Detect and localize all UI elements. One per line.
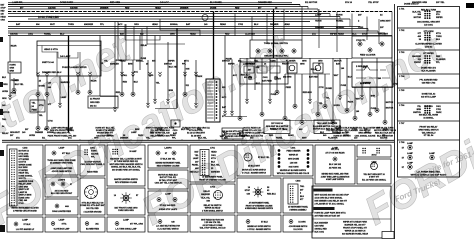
svg-text:4 CYCLE - WASHER SWITCH: 4 CYCLE - WASHER SWITCH [247, 228, 271, 231]
legend radio connector [80, 145, 105, 176]
mid label rows [104, 60, 342, 66]
svg-text:BLU: BLU [254, 24, 259, 26]
wire [231, 60, 238, 116]
svg-text:TAIL STOP SIGNAL 904 140: TAIL STOP SIGNAL 904 140 [199, 227, 226, 230]
svg-text:TURN SIGNAL SWITCH: TURN SIGNAL SWITCH [264, 42, 289, 45]
svg-text:DIMMER: DIMMER [120, 137, 129, 139]
wire [9, 73, 19, 100]
svg-text:GLOVE BOX LAMP: GLOVE BOX LAMP [54, 228, 71, 231]
svg-text:PARK: PARK [348, 101, 354, 104]
svg-text:HEAD: HEAD [152, 23, 158, 26]
wire [361, 58, 372, 100]
svg-text:C601: C601 [28, 33, 34, 35]
corner chip [466, 3, 474, 8]
svg-text:262 ORG: 262 ORG [283, 77, 292, 79]
wire [8, 4, 300, 6]
wire [224, 36, 234, 116]
wire [122, 59, 140, 61]
svg-text:DIMMER RED-BLU: DIMMER RED-BLU [42, 72, 62, 74]
svg-text:4 DOOR JAMB SWITCH: 4 DOOR JAMB SWITCH [52, 170, 72, 173]
svg-text:C 707: C 707 [399, 123, 405, 125]
svg-text:BEHIND INST. PANEL AND TRIM: BEHIND INST. PANEL AND TRIM [322, 173, 349, 176]
headlight switch [352, 62, 393, 87]
svg-text:C702 PPL: C702 PPL [356, 40, 366, 42]
instrument cluster box [37, 41, 101, 76]
svg-text:2 FLASHER 57 57 ACC SIGNAL: 2 FLASHER 57 57 ACC SIGNAL [315, 202, 345, 205]
legend c8 mid [283, 178, 313, 213]
connector box [8, 62, 21, 73]
svg-text:RELAY: RELAY [203, 190, 210, 193]
wire heavy [176, 28, 178, 108]
svg-text:LAMP: LAMP [429, 152, 435, 155]
svg-text:DOME ORG: DOME ORG [19, 197, 31, 199]
connector arrows row [37, 72, 198, 77]
wire [100, 36, 104, 97]
svg-text:4 MAP LAMP SWITCH: 4 MAP LAMP SWITCH [326, 178, 345, 181]
legend note c5 [148, 170, 188, 189]
svg-text:140 ACC: 140 ACC [160, 1, 169, 4]
svg-text:MARKER: MARKER [61, 81, 70, 84]
svg-text:WHT REAR MOTOR IGN: WHT REAR MOTOR IGN [201, 219, 224, 222]
svg-text:BLK C601: BLK C601 [315, 231, 325, 233]
svg-text:977 WIPER: 977 WIPER [423, 53, 434, 55]
wire [353, 87, 361, 120]
svg-text:FRONT: FRONT [282, 64, 290, 66]
svg-text:C 702: C 702 [399, 30, 405, 32]
svg-text:IGN: IGN [186, 69, 190, 71]
svg-text:BLU 977A: BLU 977A [360, 82, 370, 85]
svg-text:FEED: FEED [286, 87, 292, 89]
svg-text:MASTER LIGHTING SWITCH: MASTER LIGHTING SWITCH [114, 178, 138, 181]
svg-text:CLUSTER: CLUSTER [245, 33, 255, 35]
svg-text:LAMP: LAMP [22, 218, 28, 221]
svg-text:R.H. DOOR: R.H. DOOR [294, 229, 304, 231]
svg-text:WITH AC CONSOLE AND AMP RADIO: WITH AC CONSOLE AND AMP RADIO [411, 173, 447, 176]
svg-text:FEED CLUSTER: FEED CLUSTER [360, 55, 376, 57]
svg-text:BLK-YEL: BLK-YEL [412, 11, 421, 13]
svg-text:GRN: GRN [10, 68, 15, 70]
svg-text:RED: RED [15, 80, 20, 82]
svg-text:25 BLK WHT: 25 BLK WHT [248, 166, 261, 168]
svg-text:WHT BRN FEED MARKER SWITCH: WHT BRN FEED MARKER SWITCH [109, 163, 143, 166]
svg-text:GRN-WHT: GRN-WHT [378, 33, 389, 35]
svg-text:DOME: DOME [326, 88, 333, 90]
svg-text:FRONT OF STEERING COLUMN: FRONT OF STEERING COLUMN [199, 179, 226, 181]
svg-text:RED: RED [197, 129, 202, 131]
svg-text:LAMP: LAMP [407, 162, 413, 165]
svg-text:BLK: BLK [134, 82, 139, 84]
svg-text:RELAY: RELAY [2, 132, 9, 135]
svg-text:IGN: IGN [256, 67, 260, 69]
ignition switch [206, 79, 220, 122]
svg-text:RELAY LAMP: RELAY LAMP [19, 183, 32, 186]
svg-text:BLK-YEL: BLK-YEL [181, 129, 190, 131]
switch assembly [352, 36, 392, 58]
svg-text:297 C601 54: 297 C601 54 [271, 122, 283, 125]
svg-text:IGN DIMMER C601 RELAY 460 977: IGN DIMMER C601 RELAY 460 977 [315, 199, 348, 202]
svg-text:MOTOR: MOTOR [334, 61, 342, 63]
svg-text:ORG: ORG [1, 20, 6, 22]
svg-text:BLOWER FEED: BLOWER FEED [86, 229, 100, 231]
svg-text:DIMMER RED: DIMMER RED [258, 2, 273, 4]
svg-text:L.H. SEAT BELT RETRACTOR: L.H. SEAT BELT RETRACTOR [156, 225, 181, 228]
svg-text:PARK FRONT PANEL PPL 460: PARK FRONT PANEL PPL 460 [48, 134, 77, 137]
svg-text:BLU: BLU [300, 196, 305, 198]
svg-text:PANEL: PANEL [44, 32, 52, 35]
svg-text:LAMPS: LAMPS [164, 146, 172, 149]
wire [56, 52, 58, 76]
svg-text:C601 SIGNAL GAUGE: C601 SIGNAL GAUGE [355, 134, 376, 137]
svg-text:HORN: HORN [343, 135, 349, 137]
wire [88, 76, 97, 94]
svg-text:WIPER 16 44 SWITCH: WIPER 16 44 SWITCH [345, 229, 366, 232]
svg-text:WIPER: WIPER [228, 64, 235, 66]
legend ground c7 [237, 215, 281, 232]
svg-text:LAMP REAR: LAMP REAR [243, 63, 255, 66]
wire [195, 60, 203, 108]
wire heavy [68, 36, 70, 133]
svg-text:REAR TAIL: REAR TAIL [19, 172, 30, 175]
wire [79, 52, 81, 76]
svg-text:DOME: DOME [210, 7, 217, 9]
svg-text:63 977A: 63 977A [19, 161, 27, 164]
svg-text:RADIO FEED: RADIO FEED [87, 171, 99, 174]
svg-text:IGN: IGN [206, 201, 210, 203]
svg-text:57 BLK 640 RED: 57 BLK 640 RED [160, 204, 176, 207]
svg-text:BAT FEED: BAT FEED [262, 80, 272, 83]
svg-text:NEAR STEERING COLUMN: NEAR STEERING COLUMN [157, 164, 180, 167]
wire heavy [213, 12, 215, 80]
svg-text:BLK: BLK [320, 132, 325, 134]
wire [114, 36, 123, 112]
wire [240, 58, 352, 60]
svg-text:977 BLK: 977 BLK [62, 153, 71, 155]
svg-text:977A BLK RED-BLU 38: 977A BLK RED-BLU 38 [82, 202, 105, 205]
legend back of cluster [80, 178, 105, 215]
svg-text:GRN-WHT: GRN-WHT [10, 132, 20, 134]
svg-text:HEAD: HEAD [211, 151, 217, 154]
svg-text:LAMPS: LAMPS [58, 178, 66, 181]
right column box 1 [399, 9, 443, 27]
svg-text:MOTOR: MOTOR [386, 102, 394, 104]
wire [59, 76, 71, 108]
svg-text:PANEL: PANEL [332, 131, 339, 134]
svg-text:HEAD: HEAD [1, 16, 7, 19]
legend heater blower [80, 217, 105, 232]
wire [36, 76, 45, 96]
svg-text:BLU 140 262: BLU 140 262 [329, 163, 342, 166]
svg-text:977A ORG: 977A ORG [19, 152, 29, 155]
svg-text:DOME 977A WIPER: DOME 977A WIPER [96, 129, 115, 132]
wire [323, 74, 332, 108]
wire [147, 60, 154, 108]
svg-text:640 977A LAMP: 640 977A LAMP [421, 95, 436, 98]
legend courtesy lamps [45, 177, 78, 197]
svg-text:TURN: TURN [68, 24, 74, 26]
svg-text:262 PPL: 262 PPL [19, 178, 28, 180]
scan mark [0, 109, 3, 115]
svg-text:ORG: ORG [134, 24, 139, 26]
svg-text:GAUGE: GAUGE [48, 6, 56, 9]
svg-text:FLASHER: FLASHER [328, 136, 338, 139]
svg-text:IGN BLK-YEL HORN: IGN BLK-YEL HORN [419, 115, 439, 117]
wire [383, 87, 394, 124]
svg-text:2 WHT 977: 2 WHT 977 [369, 177, 380, 179]
svg-text:DOME: DOME [39, 85, 46, 87]
svg-text:REAR: REAR [91, 80, 97, 83]
wire [331, 58, 340, 124]
legend master light switch [107, 145, 145, 186]
svg-text:BAT 977 TAIL 511: BAT 977 TAIL 511 [160, 176, 177, 179]
svg-text:SIGNAL: SIGNAL [170, 23, 179, 26]
svg-text:WIPER: WIPER [66, 129, 73, 131]
svg-text:WIPER DOME: WIPER DOME [19, 164, 33, 166]
svg-text:DOME 511 977A BAT BAT: DOME 511 977A BAT BAT [80, 204, 105, 207]
wire heavy [273, 9, 275, 58]
wire [375, 58, 382, 112]
svg-text:LAMP: LAMP [193, 157, 199, 160]
svg-text:FUSE FLASHER WIPER: FUSE FLASHER WIPER [62, 66, 87, 69]
wire [309, 58, 319, 104]
svg-text:140: 140 [1, 13, 4, 16]
svg-text:FUSE: FUSE [341, 85, 347, 87]
separator rail [2, 139, 394, 141]
legend turn lamp [107, 217, 145, 232]
svg-text:BLK-YEL: BLK-YEL [211, 165, 220, 167]
svg-text:MOTOR: MOTOR [414, 17, 422, 19]
wire [8, 8, 318, 10]
svg-text:C 706: C 706 [399, 105, 405, 107]
svg-text:TAIL LAMP CLUSTER: TAIL LAMP CLUSTER [317, 122, 338, 125]
svg-text:25 DIMMER GRN PANEL: 25 DIMMER GRN PANEL [50, 162, 74, 165]
svg-text:4 L.H. SEAT BELT SWITCH: 4 L.H. SEAT BELT SWITCH [157, 228, 179, 231]
connector box [222, 128, 243, 139]
svg-text:GRN: GRN [2, 98, 7, 100]
bus wire labels right [315, 14, 391, 30]
wire [8, 26, 360, 28]
svg-text:WIPER: WIPER [330, 33, 337, 35]
circle splice [202, 15, 208, 21]
svg-text:GRN: GRN [302, 61, 307, 63]
svg-text:44 FRONT: 44 FRONT [90, 98, 101, 101]
svg-text:C702: C702 [210, 186, 216, 188]
svg-text:C701: C701 [210, 147, 216, 149]
wire [283, 74, 292, 120]
svg-text:GAUGE: GAUGE [70, 6, 78, 9]
wire [246, 58, 253, 104]
svg-text:YEL STOP: YEL STOP [368, 2, 379, 4]
svg-text:PARK BRN GRN: PARK BRN GRN [118, 209, 134, 212]
svg-text:BLU RED BRN FRONT: BLU RED BRN FRONT [51, 193, 73, 195]
svg-text:HORN: HORN [334, 105, 340, 107]
wire loop [8, 21, 310, 23]
svg-text:CLUSTER WIPER CLUSTER: CLUSTER WIPER CLUSTER [415, 44, 442, 46]
connector plug [171, 120, 180, 127]
svg-text:54 16 63 GRN-WHT: 54 16 63 GRN-WHT [187, 132, 206, 135]
legend glove box [45, 217, 78, 232]
legend cab marker [7, 217, 43, 232]
svg-text:LAMP: LAMP [61, 96, 67, 99]
svg-text:PANEL: PANEL [192, 164, 199, 167]
svg-text:44 PARK 904: 44 PARK 904 [329, 167, 342, 170]
svg-text:4 DOORJAMB SWITCH: 4 DOORJAMB SWITCH [289, 225, 308, 228]
svg-text:RED-BLU: RED-BLU [190, 171, 200, 173]
svg-text:DIMMER: DIMMER [100, 7, 109, 9]
svg-text:140 LAMP: 140 LAMP [60, 55, 71, 58]
svg-text:RELAY 54 SWITCH: RELAY 54 SWITCH [204, 204, 222, 207]
svg-text:SWITCH: SWITCH [222, 61, 230, 63]
left margin labels [2, 77, 10, 135]
svg-text:30 AMP: 30 AMP [129, 150, 137, 153]
svg-text:C702 63: C702 63 [425, 47, 433, 49]
wire [8, 13, 330, 15]
svg-text:DOME TAIL 63: DOME TAIL 63 [422, 93, 436, 96]
legend trailer conn [357, 145, 391, 157]
wire [285, 73, 330, 75]
svg-text:WITH ALL CONNECTORS AND COLOR: WITH ALL CONNECTORS AND COLOR [277, 172, 310, 175]
svg-text:DIMMER: DIMMER [270, 24, 279, 26]
top page labels [1, 1, 446, 22]
wire id row [10, 128, 389, 137]
svg-text:BLK-YEL: BLK-YEL [15, 84, 24, 86]
svg-text:HORN: HORN [315, 21, 322, 23]
svg-text:904 HORN: 904 HORN [289, 166, 299, 169]
bus wire labels 2 [10, 32, 389, 35]
svg-text:640 PARK: 640 PARK [315, 224, 325, 227]
svg-text:BLK-YEL: BLK-YEL [201, 197, 210, 199]
right column box 4 [399, 75, 438, 84]
svg-text:44 38 ORG BLU GRN SIGNAL: 44 38 ORG BLU GRN SIGNAL [315, 196, 344, 199]
svg-text:GAUGE: GAUGE [380, 136, 388, 139]
svg-text:HEAD 2 977A: HEAD 2 977A [44, 48, 58, 51]
svg-text:PARK: PARK [197, 75, 203, 78]
svg-text:ORG BRN: ORG BRN [19, 186, 29, 188]
svg-text:57 63: 57 63 [19, 203, 25, 205]
svg-text:IGN: IGN [222, 87, 226, 89]
svg-text:511 16 PARK 640 SIGNAL: 511 16 PARK 640 SIGNAL [362, 178, 387, 181]
svg-text:WIRING INSTRUMENT CLUSTER: WIRING INSTRUMENT CLUSTER [11, 208, 39, 210]
svg-text:54 GRN: 54 GRN [298, 221, 306, 224]
right legend column frame [398, 7, 460, 178]
svg-text:MARKER: MARKER [211, 170, 220, 173]
svg-text:WHT: WHT [302, 137, 307, 139]
right column box 5 [399, 90, 437, 98]
wire [12, 78, 24, 92]
svg-text:HEAD: HEAD [190, 32, 196, 35]
svg-text:ORG: ORG [318, 61, 323, 63]
wire [45, 76, 52, 96]
turn signal flasher box [314, 120, 340, 134]
svg-text:GRN: GRN [300, 64, 305, 66]
svg-text:4-WAY TRIM LAMP ILLUMINATION: 4-WAY TRIM LAMP ILLUMINATION [321, 175, 350, 178]
svg-text:HEAD: HEAD [284, 23, 290, 26]
legend c10 note [357, 159, 391, 184]
legend seat belt [148, 215, 188, 232]
wire [300, 74, 312, 124]
svg-text:4 TURN SIGNAL SWITCH: 4 TURN SIGNAL SWITCH [202, 209, 224, 212]
svg-text:TAIL BRN BLU: TAIL BRN BLU [422, 131, 436, 134]
svg-text:16 SIGNAL: 16 SIGNAL [423, 117, 434, 120]
svg-text:C 705: C 705 [399, 90, 405, 92]
svg-text:38 54 904 RED: 38 54 904 RED [55, 190, 69, 193]
svg-text:SWITCH: SWITCH [413, 112, 421, 114]
svg-text:LAMP: LAMP [59, 218, 65, 221]
svg-text:37A: 37A [312, 32, 316, 35]
wire [120, 60, 128, 96]
svg-text:GRN-WHT RED-BLU PPL: GRN-WHT RED-BLU PPL [264, 56, 288, 58]
svg-text:977 PPL-ORG: 977 PPL-ORG [130, 224, 143, 226]
svg-text:GRN: GRN [170, 33, 175, 35]
svg-text:4 CLUSTER GROUND: 4 CLUSTER GROUND [84, 211, 103, 214]
svg-text:BEHIND INSTRUMENT PANEL: BEHIND INSTRUMENT PANEL [156, 162, 182, 165]
svg-text:BRN: BRN [128, 64, 133, 66]
svg-text:16 GA. FUSE LINK: 16 GA. FUSE LINK [38, 16, 59, 19]
svg-text:RED: RED [225, 33, 230, 35]
svg-text:977A: 977A [62, 223, 67, 226]
wire [225, 116, 247, 118]
legend note c6 [190, 215, 235, 232]
wire [339, 58, 347, 100]
svg-text:DOME PPL ACC 511: DOME PPL ACC 511 [242, 129, 262, 132]
svg-text:GRN: GRN [107, 135, 112, 137]
svg-text:PARK: PARK [436, 111, 442, 114]
svg-text:977A: 977A [211, 157, 216, 160]
svg-text:DOME RED 37A: DOME RED 37A [421, 67, 437, 70]
svg-text:RED: RED [1, 11, 6, 13]
svg-text:HEAD: HEAD [155, 6, 161, 9]
turn flasher [313, 63, 323, 73]
svg-text:FUSE: FUSE [271, 94, 277, 96]
wire [45, 96, 53, 130]
svg-text:640 STOP MOTOR: 640 STOP MOTOR [96, 134, 114, 137]
svg-text:FRONT OF STEERING COLUMN: FRONT OF STEERING COLUMN [246, 205, 273, 207]
wire [285, 120, 334, 122]
svg-text:WIPER: WIPER [168, 61, 175, 63]
svg-text:WIPER 977A REAR PARK: WIPER 977A REAR PARK [343, 220, 368, 223]
svg-text:STOP: STOP [245, 190, 251, 192]
wire [36, 96, 44, 130]
svg-text:BLU: BLU [60, 33, 65, 35]
svg-text:37A: 37A [16, 136, 20, 139]
svg-text:RED: RED [269, 135, 274, 137]
legend lighter [45, 199, 78, 215]
svg-text:MARKER TAIL CLUSTER 38 WHT: MARKER TAIL CLUSTER 38 WHT [110, 158, 142, 161]
wire [8, 35, 392, 37]
bus wire labels [16, 23, 290, 26]
svg-text:LAMP: LAMP [59, 146, 65, 149]
legend courtesy list [315, 145, 355, 184]
svg-text:BLK: BLK [211, 161, 216, 163]
svg-text:BRN: BRN [283, 129, 288, 131]
svg-text:C 701: C 701 [399, 9, 405, 11]
svg-text:MARKER: MARKER [412, 55, 421, 58]
table corner tab [382, 232, 394, 239]
svg-text:LAMP: LAMP [123, 218, 129, 221]
wire bold top [8, 4, 300, 6]
wire [316, 74, 324, 116]
svg-text:TURN 460 PANEL GRN DOME: TURN 460 PANEL GRN DOME [47, 159, 76, 162]
svg-text:FUSE: FUSE [141, 58, 147, 60]
svg-text:DOME: DOME [116, 60, 123, 62]
svg-text:PARK: PARK [138, 134, 144, 137]
svg-text:BRN PANEL SWITCH: BRN PANEL SWITCH [419, 128, 439, 131]
svg-text:262 YEL RED: 262 YEL RED [86, 208, 99, 210]
right column box 3 [399, 52, 446, 72]
bus labels row0 [20, 6, 278, 9]
svg-text:297 FEED IGN 297 BAT 297: 297 FEED IGN 297 BAT 297 [315, 214, 342, 217]
svg-text:904 511 REAR 140: 904 511 REAR 140 [243, 127, 261, 130]
svg-text:BRN: BRN [417, 109, 422, 111]
